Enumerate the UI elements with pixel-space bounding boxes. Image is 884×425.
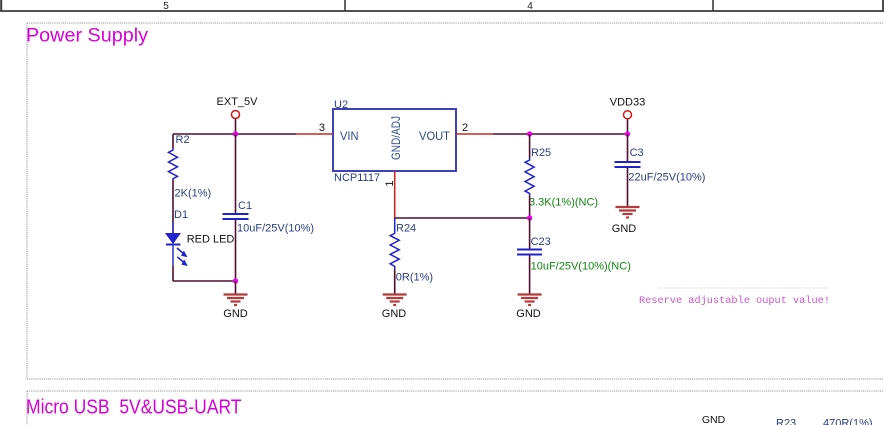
capacitor C1 [223,134,315,281]
wire R25 to C23 [529,195,531,218]
sheet frame top line [0,0,884,12]
svg-text:GND: GND [382,308,407,320]
svg-text:R25: R25 [531,147,551,159]
junction at C23 top [527,215,532,220]
svg-text:C3: C3 [630,147,644,159]
svg-text:GND: GND [612,223,637,235]
svg-text:GND: GND [702,414,726,425]
note faint dotted line [659,287,828,289]
ground below C23 [516,295,541,321]
junction at C1 bottom [233,278,238,283]
LED D1 [165,209,234,266]
svg-text:R23: R23 [776,418,796,425]
svg-text:10uF/25V(10%): 10uF/25V(10%) [237,223,314,235]
micro usb blanket dashed box [27,391,884,425]
svg-text:3.3K(1%)(NC): 3.3K(1%)(NC) [529,197,598,209]
wire R2 top drop [172,134,174,148]
svg-text:VDD33: VDD33 [610,97,645,109]
svg-text:22uF/25V(10%): 22uF/25V(10%) [628,172,705,184]
svg-text:Power Supply: Power Supply [26,25,148,47]
svg-text:EXT_5V: EXT_5V [217,96,259,108]
svg-text:1: 1 [384,180,396,186]
junction at VDD33 [625,131,630,136]
svg-text:2K(1%): 2K(1%) [175,188,212,200]
capacitor C23 [517,218,631,294]
pin 2 of U2 [456,133,493,135]
wire bottom rail to C1 [173,280,236,282]
resistor R24 [390,218,433,284]
svg-text:C1: C1 [238,200,252,212]
ground below C1 [223,295,248,321]
svg-text:2: 2 [462,122,468,134]
pin 3 of U2 [296,133,333,135]
svg-text:NCP1117: NCP1117 [334,172,380,184]
svg-text:RED LED: RED LED [187,234,235,246]
svg-text:Micro USB 5V&USB-UART: Micro USB 5V&USB-UART [26,397,242,419]
wire rail right of U2 [493,133,628,135]
svg-text:5: 5 [163,1,169,12]
resistor R2 [169,134,212,200]
pin 1 of U2 [394,171,396,218]
op-amp U2 (regulator NCP1117) [333,99,456,184]
junction at R25 top [527,131,532,136]
svg-text:GND: GND [223,308,248,320]
resistor R25 [525,134,598,209]
svg-text:D1: D1 [174,209,188,221]
svg-text:4: 4 [527,1,533,12]
junction at EXT_5V rail [233,131,238,136]
wire R24 to C23 node [395,217,530,219]
svg-text:VIN: VIN [340,129,359,143]
power port EXT_5V [217,96,259,134]
wire D1 to bottom rail [172,266,174,281]
svg-text:C23: C23 [531,236,551,248]
svg-text:3: 3 [319,122,325,134]
power port VDD33 [610,97,645,135]
svg-text:GND/ADJ: GND/ADJ [389,116,403,160]
wire R24 to ground [394,269,396,294]
capacitor C3 [615,134,706,207]
svg-text:GND: GND [516,308,541,320]
svg-text:VOUT: VOUT [419,129,451,143]
svg-text:R2: R2 [176,134,190,146]
ground below R24 [382,295,407,321]
wire C1 junction to ground [235,281,237,294]
ground below C3 [612,207,640,235]
svg-text:10uF/25V(10%)(NC): 10uF/25V(10%)(NC) [531,261,631,273]
svg-text:Reserve adjustable ouput value: Reserve adjustable ouput value! [639,295,830,307]
svg-text:470R(1%): 470R(1%) [823,418,873,425]
wire main rail left [173,133,296,135]
svg-text:R24: R24 [396,223,416,235]
svg-text:0R(1%): 0R(1%) [396,272,433,284]
wire R2 to D1 [172,180,174,233]
